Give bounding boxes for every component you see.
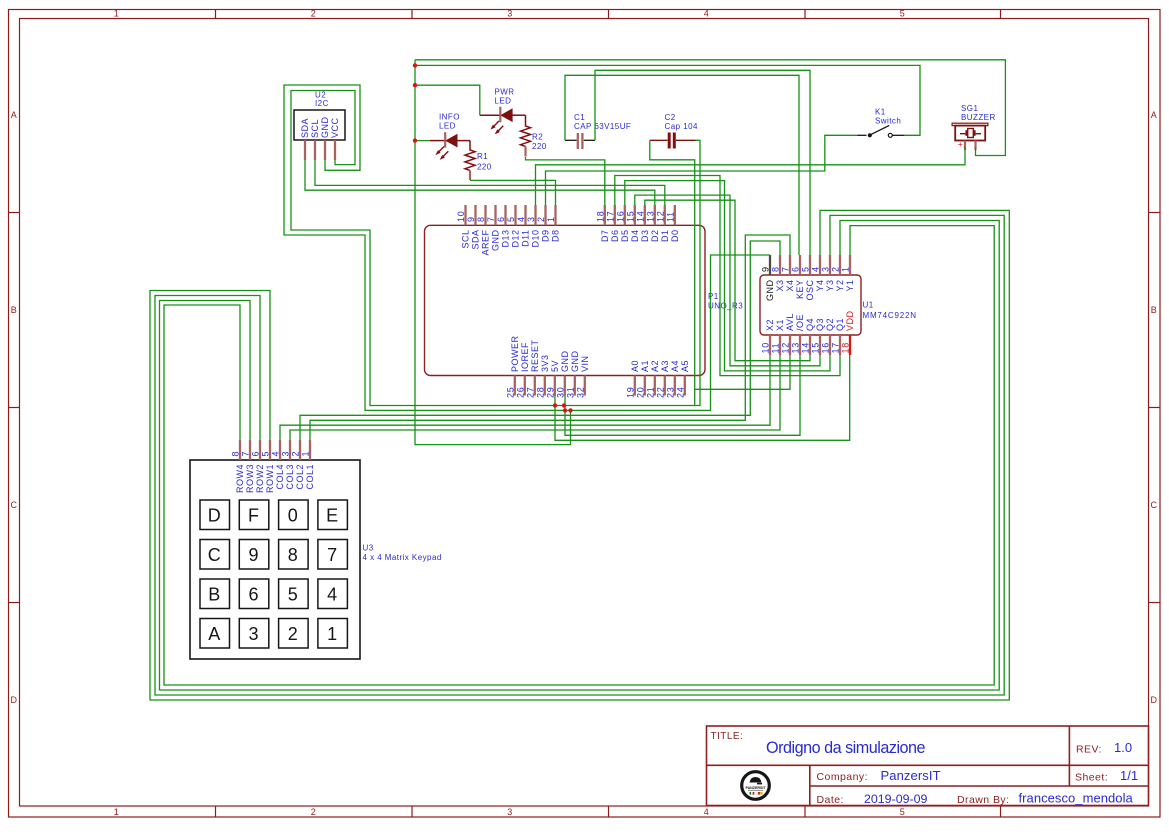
resistor R1 labels [477,152,492,172]
svg-text:Cap 104: Cap 104 [665,122,698,131]
svg-text:LED: LED [495,97,512,106]
U3 pin 7 ROW3 [241,440,256,493]
svg-text:PWR: PWR [495,88,515,97]
keypad button 4 [318,579,348,609]
P1 pin 3 D10 [526,205,541,248]
svg-text:7: 7 [327,545,337,565]
svg-text:A: A [208,624,220,644]
LED INFO emission arrows [435,147,448,160]
P1 pin 31 GND [565,351,580,399]
capacitor C1 labels [574,113,631,131]
svg-text:1.0: 1.0 [1114,740,1132,755]
svg-text:C: C [1151,500,1158,510]
wire U1 AVL tie [695,355,790,389]
svg-text:ROW4: ROW4 [235,464,245,493]
svg-text:Y1: Y1 [845,280,855,292]
svg-text:P1: P1 [708,292,719,301]
svg-text:BUZZER: BUZZER [961,113,996,122]
junction dot GND rail A [563,408,567,412]
P1 pin 17 D6 [605,205,620,242]
wire P1 D4 to U1 Q3 [635,195,820,366]
wire keypad ROW2 to U1 Y3 [155,215,1004,695]
wire R1 to P1 D8 [470,180,556,205]
junction dot supply/PWR LED [413,83,417,87]
svg-text:1: 1 [546,216,556,222]
U1 pin 11 X1 [771,319,786,355]
svg-text:19: 19 [625,386,635,398]
svg-text:23: 23 [665,386,675,398]
wire P1 D5 to U1 Q2 [625,181,830,371]
U3 pin 6 ROW2 [251,440,266,493]
wire keypad ROW4 to U1 Y1 [164,226,994,685]
svg-text:13: 13 [791,342,801,354]
P1 pin 22 A3 [655,360,670,398]
svg-text:X1: X1 [775,319,785,331]
U3 pin 2 COL2 [291,440,306,490]
svg-text:Q3: Q3 [815,318,825,331]
U1 pin 9 GND [761,255,776,301]
svg-text:GND: GND [491,230,501,252]
svg-text:D11: D11 [521,230,531,247]
wire branch to PWR LED [415,85,480,115]
svg-text:18: 18 [841,342,851,354]
P1 pin 19 A0 [625,360,640,398]
svg-text:SDA: SDA [471,230,481,250]
svg-text:VCC: VCC [330,117,340,138]
svg-text:ROW1: ROW1 [265,464,275,493]
svg-text:U3: U3 [363,544,374,553]
svg-text:A3: A3 [660,360,670,372]
svg-text:AVL: AVL [785,313,795,331]
svg-text:D9: D9 [541,230,551,243]
switch K1 symbol [858,125,905,137]
svg-text:I2C: I2C [315,99,329,108]
svg-text:C: C [11,500,18,510]
U1 pin 17 Q1 [831,318,846,355]
svg-text:5: 5 [900,9,905,19]
svg-text:7: 7 [486,216,496,222]
U1 pin 7 X4 [781,255,796,292]
svg-text:3: 3 [507,9,512,19]
border row letters right [1151,110,1158,705]
title block row divider 1 [707,764,1149,766]
wire P1 D9 to switch pin 1 [546,135,858,205]
svg-text:C: C [208,545,221,565]
resistor R2 labels [532,133,547,152]
svg-text:SDA: SDA [300,118,310,138]
border row ticks left [9,213,20,603]
svg-text:25: 25 [505,386,515,398]
keypad button E [318,500,348,530]
svg-text:1: 1 [114,807,119,817]
svg-text:A4: A4 [670,360,680,372]
U2 pin SCL [310,119,320,160]
svg-text:VDD: VDD [845,310,855,331]
svg-text:9: 9 [248,545,258,565]
P1 pin 21 A2 [645,360,660,398]
junction dot supply/INFO LED [413,138,417,142]
svg-text:D10: D10 [531,230,541,248]
svg-text:31: 31 [565,386,575,398]
svg-text:20: 20 [635,386,645,398]
svg-text:5: 5 [900,807,905,817]
svg-text:TITLE:: TITLE: [711,731,744,742]
svg-text:E: E [326,506,338,526]
svg-text:5: 5 [506,216,516,222]
svg-text:Y4: Y4 [815,280,825,292]
svg-text:3: 3 [248,624,258,644]
P1 pin 18 D7 [595,205,610,242]
svg-text:A: A [1151,110,1157,120]
switch K1 labels [875,108,901,126]
company logo [742,772,770,800]
svg-text:21: 21 [645,386,655,398]
capacitor C2 labels [665,113,698,131]
wire P1 D10 to buzzer pin 1 [536,147,966,205]
svg-text:GND: GND [765,280,775,302]
wire U2 VCC loop to VCC rail and C2 [291,91,700,406]
U1 pin 13 /OE [791,314,806,355]
svg-text:4: 4 [516,216,526,222]
P1 pin 9 SDA [466,205,481,250]
U1 pin 14 Q4 [801,318,816,355]
svg-text:ROW3: ROW3 [245,464,255,493]
svg-text:B: B [1151,305,1157,315]
P1 pin 26 IOREF [515,342,530,398]
keypad button 9 [239,540,268,570]
junction dot GND rail B [568,408,572,412]
svg-text:X4: X4 [785,280,795,292]
svg-text:francesco_mendola: francesco_mendola [1019,791,1134,806]
svg-text:PanzersIT: PanzersIT [881,768,941,783]
svg-text:AREF: AREF [481,230,491,256]
wire buzzer loop top [415,60,1005,156]
keypad button 3 [239,619,268,649]
keypad button 0 [279,500,309,530]
svg-text:220: 220 [477,163,492,172]
svg-text:U1: U1 [863,301,874,310]
svg-text:24: 24 [675,386,685,398]
keypad button 8 [279,540,309,570]
svg-text:8: 8 [288,545,298,565]
wire P1 D3 to U1 Q4 [645,200,810,361]
svg-text:GND: GND [560,351,570,373]
svg-text:3: 3 [507,807,512,817]
U1 pin 8 X3 [771,255,786,292]
svg-text:LED: LED [439,122,456,131]
U3 pin 1 COL1 [301,440,316,490]
wire R2 to P1 D7 [526,157,605,205]
wire keypad ROW1 to U1 Y4 [150,210,1009,700]
svg-text:X2: X2 [765,319,775,331]
svg-text:22: 22 [655,386,665,398]
svg-text:2: 2 [311,807,316,817]
junction dot supply/switch line [413,63,417,67]
U3 pin 3 COL3 [281,440,296,490]
svg-text:/OE: /OE [795,314,805,331]
svg-text:15: 15 [625,210,635,222]
border column ticks bottom [216,806,1001,817]
LED INFO labels [439,113,460,131]
svg-text:1: 1 [114,9,119,19]
svg-text:4 x 4 Matrix Keypad: 4 x 4 Matrix Keypad [363,553,442,562]
resistor R2 symbol [521,115,531,146]
svg-text:F: F [248,506,259,526]
LED PWR symbol [480,107,526,122]
P1 pin 7 GND [486,205,501,251]
svg-text:1: 1 [301,451,311,457]
svg-text:D5: D5 [620,230,630,243]
U3 pin 4 COL4 [271,440,286,490]
svg-text:7: 7 [781,266,791,272]
U2 pin SDA [300,118,310,160]
svg-text:14: 14 [801,342,811,354]
svg-text:D3: D3 [640,230,650,243]
svg-text:D7: D7 [600,230,610,243]
svg-text:12: 12 [781,342,791,354]
wire branch to INFO LED [415,140,430,142]
U1 pin 3 Y3 [821,255,836,292]
svg-text:27: 27 [525,386,535,398]
border column numbers bottom [114,807,905,817]
svg-text:X3: X3 [775,280,785,292]
keypad button 7 [318,540,348,570]
wire U2 SCL to P1 D1 [315,160,665,205]
U1 pin 5 OSC [801,255,816,301]
P1 pin 5 D12 [506,205,521,248]
svg-text:6: 6 [496,216,506,222]
svg-text:30: 30 [555,386,565,398]
junction dot 5V rail A [553,403,557,407]
keypad button B [200,579,230,609]
svg-text:5: 5 [801,266,811,272]
svg-text:2: 2 [291,451,301,457]
svg-text:ROW2: ROW2 [255,464,265,493]
wire keypad ROW3 to U1 Y2 [160,221,1000,691]
svg-text:K1: K1 [875,108,886,117]
U3 pin 5 ROW1 [261,440,276,493]
wire U2 SDA to P1 D2 [305,160,655,205]
svg-text:INFO: INFO [439,113,460,122]
wire U1 X4 to keypad COL1 [310,235,790,440]
wire C1 pin 1 to U1 KEY [565,75,799,255]
svg-text:Q4: Q4 [805,318,815,331]
svg-text:D2: D2 [650,230,660,243]
svg-text:IOREF: IOREF [520,342,530,372]
svg-text:6: 6 [248,585,258,605]
wire switch loop top [415,65,920,135]
U2 pin VCC [330,117,340,160]
resistor R1 symbol [465,141,475,171]
svg-text:4: 4 [811,266,821,272]
svg-text:D1: D1 [660,230,670,243]
P1 pin 4 D11 [516,205,531,247]
svg-text:C1: C1 [574,113,585,122]
capacitor C1 symbol [565,133,595,149]
wire C2 pin 1 loop to VCC rail [650,140,695,405]
svg-text:D6: D6 [610,230,620,243]
svg-text:17: 17 [605,210,615,222]
svg-text:4: 4 [271,451,281,457]
svg-text:COL4: COL4 [275,464,285,490]
svg-text:220: 220 [532,142,547,151]
P1 pin 30 GND [555,351,570,399]
keypad button 6 [239,579,268,609]
keypad button 2 [279,619,309,649]
U1 pin 10 X2 [761,319,776,355]
svg-text:Date:: Date: [817,794,844,806]
svg-text:3: 3 [526,216,536,222]
svg-text:D4: D4 [630,230,640,243]
svg-text:R1: R1 [477,152,488,161]
svg-text:COL1: COL1 [305,464,315,490]
keypad button F [239,500,268,530]
svg-text:COL2: COL2 [295,464,305,490]
svg-text:D13: D13 [501,230,511,248]
svg-text:D: D [11,695,18,705]
keypad button 1 [318,619,348,649]
svg-text:0: 0 [288,506,298,526]
U1 pin 2 Y2 [831,255,846,292]
svg-text:REV:: REV: [1076,744,1102,756]
svg-text:RESET: RESET [530,339,540,372]
P1 pin 24 A5 [675,360,690,398]
svg-text:6: 6 [251,451,261,457]
P1 pin 1 D8 [546,205,561,242]
svg-text:+: + [958,139,963,149]
wire C1 pin 2 to U1 OSC [595,70,810,255]
P1 pin 14 D3 [635,205,650,242]
svg-text:10: 10 [456,210,466,222]
svg-text:9: 9 [466,216,476,222]
LED PWR labels [495,88,515,106]
svg-text:Y2: Y2 [835,280,845,292]
svg-text:1: 1 [841,266,851,272]
svg-text:4: 4 [327,585,337,605]
svg-text:15: 15 [811,342,821,354]
U1 pin 15 Q3 [811,318,826,355]
junction dot 5V rail B [562,403,566,407]
border column numbers top [114,9,905,19]
buzzer SG1 labels [961,104,996,122]
svg-text:Company:: Company: [817,771,868,783]
svg-text:COL3: COL3 [285,464,295,490]
P1 pin 2 D9 [536,205,551,242]
svg-text:PANZERSIT: PANZERSIT [745,786,766,790]
U2 pin GND [320,117,330,161]
P1 pin 28 3V3 [535,354,550,398]
svg-text:D12: D12 [511,230,521,248]
svg-text:28: 28 [535,386,545,398]
svg-text:8: 8 [231,451,241,457]
wire P1 GND to U1 /OE [565,355,800,435]
title block outer box [707,726,1149,806]
svg-text:Q1: Q1 [835,318,845,331]
svg-text:A: A [11,110,17,120]
svg-text:A1: A1 [640,360,650,372]
svg-text:Drawn By:: Drawn By: [957,794,1009,806]
P1 pin 27 RESET [525,339,540,398]
P1 pin 11 D0 [665,205,680,242]
P1 pin 15 D4 [625,205,640,242]
svg-text:D: D [1151,695,1158,705]
svg-text:Switch: Switch [875,117,901,126]
svg-text:4: 4 [704,9,709,19]
svg-text:4: 4 [704,807,709,817]
svg-text:11: 11 [771,343,781,354]
LED INFO symbol [430,132,470,147]
svg-text:2: 2 [288,624,298,644]
wire U2 GND loop to P1 GND rail [284,85,770,410]
title block rev cell divider [1068,726,1070,786]
capacitor C2 symbol [650,133,696,149]
svg-text:5: 5 [261,451,271,457]
svg-text:CAP 63V15UF: CAP 63V15UF [574,122,631,131]
P1 pin 16 D5 [615,205,630,242]
svg-text:KEY: KEY [795,280,805,300]
svg-text:7: 7 [241,451,251,457]
svg-text:SCL: SCL [310,119,320,138]
svg-text:3: 3 [821,266,831,272]
svg-text:32: 32 [575,386,585,398]
svg-text:9: 9 [761,266,771,272]
svg-text:26: 26 [515,386,525,398]
title block row divider 2 [810,785,1149,787]
U1 pin 12 AVL [781,313,796,355]
svg-text:VIN: VIN [580,355,590,372]
svg-text:2: 2 [311,9,316,19]
keypad button 5 [279,579,309,609]
border row letters left [11,110,18,705]
svg-text:C2: C2 [665,113,676,122]
svg-text:2019-09-09: 2019-09-09 [864,792,927,806]
keypad U3 body [190,460,360,659]
svg-text:3V3: 3V3 [540,354,550,372]
svg-text:12: 12 [655,210,665,222]
svg-text:A5: A5 [680,360,690,372]
svg-text:5V: 5V [550,360,560,372]
keypad button D [200,500,230,530]
wire supply vertical rail [415,60,571,445]
svg-text:11: 11 [665,211,675,222]
svg-text:3: 3 [281,451,291,457]
svg-text:1/1: 1/1 [1120,768,1138,783]
svg-text:SCL: SCL [461,230,471,249]
svg-text:16: 16 [821,342,831,354]
svg-text:R2: R2 [532,133,543,142]
svg-text:OSC: OSC [805,280,815,301]
wire U1 X2 to keypad COL4 [280,355,770,440]
P1 pin 12 D1 [655,205,670,242]
U1 pin 4 Y4 [811,255,826,292]
wire P1 D6 to U1 Q1 [615,176,840,376]
P1 pin 6 D13 [496,205,511,248]
svg-text:17: 17 [831,342,841,354]
wire U1 X1 to keypad COL3 [290,355,780,440]
svg-text:6: 6 [791,266,801,272]
svg-text:B: B [11,305,17,315]
svg-text:13: 13 [645,210,655,222]
P1 pin 10 SCL [456,205,471,249]
svg-text:1: 1 [327,624,337,644]
svg-text:D8: D8 [551,230,561,243]
P1 pin 29 5V [545,360,560,398]
svg-text:Q2: Q2 [825,318,835,331]
svg-text:Ordigno da simulazione: Ordigno da simulazione [766,739,926,757]
MCU board P1 UNO_R3 body [425,225,706,375]
P1 pin 8 AREF [476,205,491,256]
svg-text:D: D [208,506,221,526]
